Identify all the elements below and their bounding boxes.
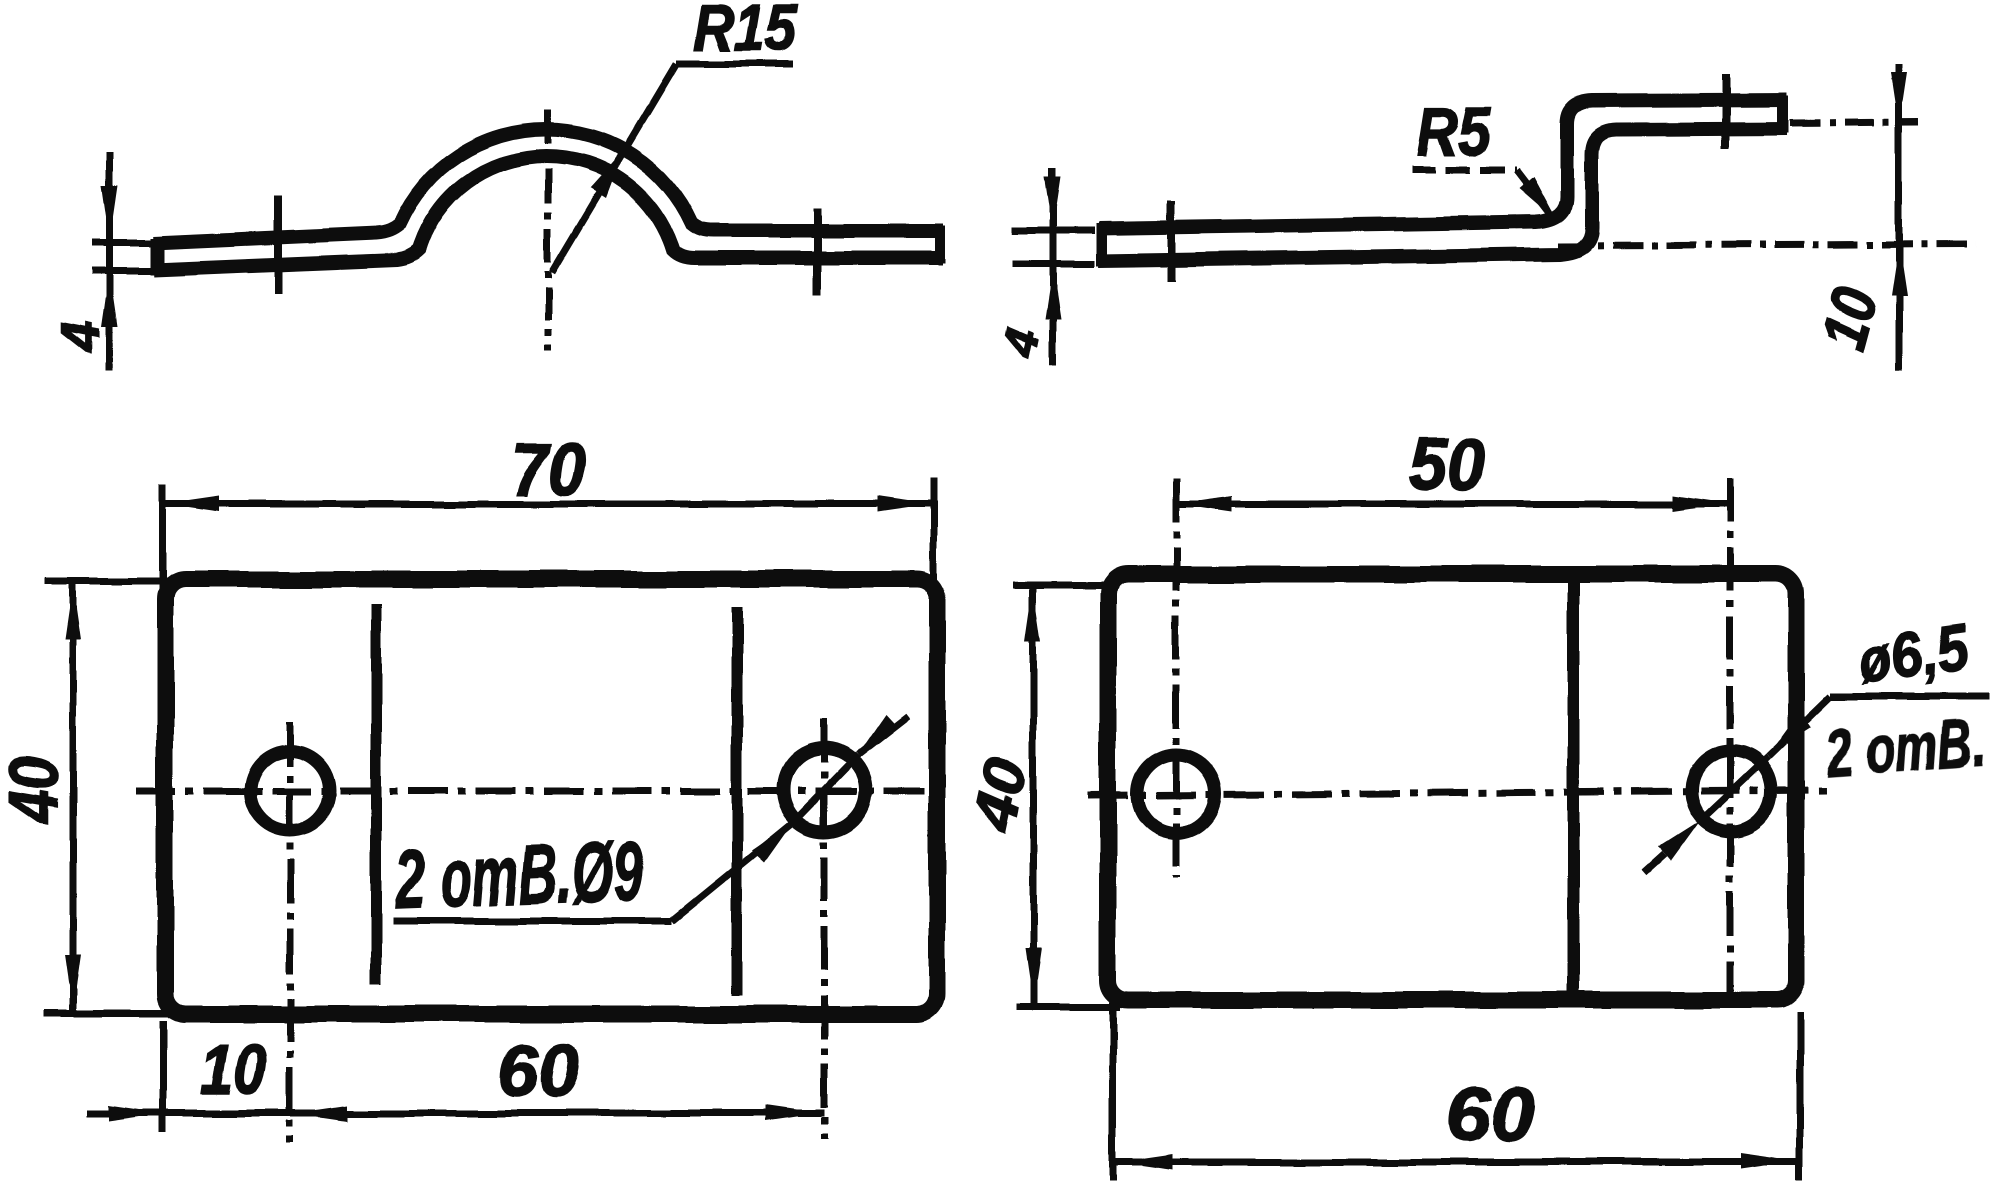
dimension 10 dimension line [1896, 64, 1903, 371]
label 2 otv d9 leader [672, 824, 791, 921]
dimension 40 (plate 1) dimension line [70, 582, 77, 1012]
R15 leader line [552, 64, 676, 272]
plate 1 right hole upper diameter arrowhead [857, 714, 898, 756]
svg-text:2 отВ.: 2 отВ. [1823, 705, 1987, 790]
svg-text:60: 60 [1447, 1072, 1536, 1157]
plate 2 left hole vertical centerline [1173, 478, 1180, 878]
plate 1 (70x40) outline [165, 579, 937, 1014]
dimension 4 (right view) arrowheads [1045, 176, 1061, 229]
dimension 4 (left view) dimension line [107, 152, 114, 371]
Z-bracket right end face [1778, 96, 1789, 133]
label 2 otv d9 arrowhead at hole [752, 821, 794, 862]
plate 1 right bend line [732, 607, 743, 996]
dimensions 10 and 60 (plate 1) dimension line [86, 1110, 824, 1117]
dimension 4 (left view) arrowheads [102, 186, 118, 241]
plate 2 right hole vertical centerline [1727, 478, 1734, 1005]
plate 2 horizontal centerline [1088, 790, 1829, 796]
dimension 10 arrowheads [1891, 72, 1907, 125]
label d6.5 leader [1768, 697, 1830, 757]
R5 leader shelf [1412, 167, 1516, 174]
svg-text:40: 40 [0, 756, 72, 826]
Z-bracket lower hole tick mark [1167, 201, 1175, 281]
dimension 40 (plate 1) extension lines [45, 578, 178, 585]
dimension 10 (plate 1) outside arrowhead [108, 1105, 163, 1121]
saddle clamp right end face [935, 226, 945, 263]
plate 2 right hole [1691, 751, 1771, 831]
plate 1 right hole [783, 749, 865, 831]
R15 arrowhead [590, 150, 624, 198]
dimension 4 (right view) dimension line [1050, 168, 1057, 365]
svg-text:10: 10 [200, 1031, 266, 1110]
R15 leader shelf [676, 61, 793, 68]
dimension 60 (plate 2) extension lines [1110, 1002, 1117, 1180]
dimension 70 dimension line [162, 501, 934, 508]
svg-text:60: 60 [497, 1031, 579, 1112]
dimension 4 (left view) extension lines [92, 240, 152, 247]
dimension 40 (plate 2) arrowheads [1025, 587, 1041, 642]
saddle clamp left end face [150, 238, 164, 275]
plate 1 left bend line [371, 604, 382, 985]
dimension 4 (right view) extension lines [1013, 228, 1095, 235]
dimension 70 arrowheads [165, 496, 220, 512]
dimension 60 (plate 2) dimension line [1116, 1159, 1798, 1166]
plate 1 right hole diameter diagonal [791, 755, 858, 824]
dimension 40 (plate 1) arrowheads [65, 584, 81, 639]
dimension 50 arrowheads [1178, 496, 1233, 512]
plate 1 right hole diameter tail [858, 716, 908, 755]
plate 1 horizontal centerline [136, 788, 948, 795]
plate 1 left hole [250, 751, 330, 831]
svg-text:4: 4 [49, 322, 111, 354]
label d6.5 arrowhead at hole [1770, 713, 1811, 753]
dimension 70 extension lines [159, 484, 166, 590]
Z-bracket side view: bottom surface [1099, 129, 1787, 261]
plate 2 right hole lower diameter arrowhead [1659, 821, 1700, 861]
saddle clamp side view: inner bottom surface [153, 156, 943, 270]
label 2 otv d9 underline [393, 918, 672, 925]
dimension 40 (plate 2) extension lines [1013, 582, 1118, 589]
dimension 40 (plate 2) dimension line [1030, 585, 1037, 1006]
saddle arch vertical centerline [545, 110, 552, 352]
R5 leader line [1516, 170, 1549, 213]
dimension 60 (plate 1) arrowheads [292, 1105, 347, 1121]
dimension 10 lower extension (dash-dot) [1558, 244, 1975, 246]
Z-bracket upper hole tick mark [1722, 74, 1730, 149]
svg-text:2 отВ.Ø9: 2 отВ.Ø9 [392, 823, 645, 926]
dimension 10 upper extension (dash-dot) [1790, 122, 1918, 123]
saddle right hole tick mark [813, 208, 821, 295]
saddle clamp side view: outer top surface [153, 129, 943, 243]
svg-text:R5: R5 [1417, 92, 1491, 170]
plate 2 right hole diameter diagonal [1698, 757, 1768, 823]
plate 1 right hole vertical centerline [821, 719, 828, 1138]
saddle left hole tick mark [274, 196, 282, 294]
plate 1 left hole vertical centerline [287, 722, 294, 1143]
Z-bracket side view: top surface [1099, 100, 1787, 229]
plate 2 left hole [1137, 755, 1215, 833]
label d6.5 2 otv underline [1830, 694, 1990, 701]
R5 arrowhead [1519, 176, 1557, 221]
svg-text:R15: R15 [693, 0, 798, 64]
svg-text:70: 70 [511, 430, 585, 511]
plate 2 bend line [1567, 578, 1579, 998]
dimension 60 (plate 2) arrowheads [1118, 1154, 1173, 1170]
plate 2 right hole diameter tail [1645, 854, 1665, 872]
dimension 50 dimension line [1176, 501, 1730, 508]
dimension 10 (plate 1) extension line [160, 1020, 167, 1133]
svg-text:ø6,5: ø6,5 [1853, 611, 1973, 698]
Z-bracket left end face [1097, 224, 1108, 266]
svg-text:50: 50 [1409, 423, 1485, 506]
plate 2 (60x40) outline [1108, 574, 1796, 1000]
